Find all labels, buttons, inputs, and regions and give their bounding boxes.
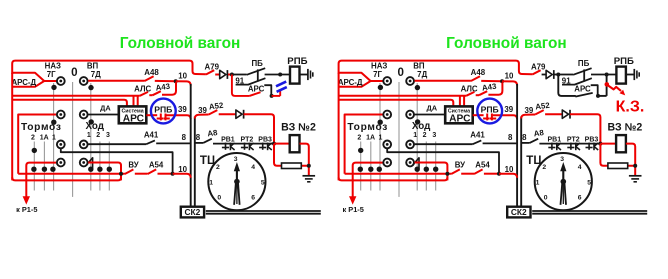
wire row4 red left right <box>353 163 383 197</box>
svg-text:ВЗ №2: ВЗ №2 <box>281 122 316 134</box>
wire ВУ А54 red right <box>345 173 452 175</box>
label РТ2 right <box>567 137 580 144</box>
svg-text:А48: А48 <box>144 68 159 77</box>
wire bottom red <box>12 177 121 180</box>
gauge number 4 <box>251 164 255 171</box>
svg-text:2: 2 <box>216 164 220 171</box>
label Ход right <box>412 121 431 132</box>
node junction ВЗ№2 left right <box>598 142 602 146</box>
contact КВ Ход-ав right <box>406 111 414 119</box>
node АРС-Д fork right <box>339 73 383 87</box>
svg-text:2: 2 <box>423 132 427 139</box>
diode РВ1 right <box>548 143 561 151</box>
gauge number 1 right <box>536 180 540 187</box>
wire 10 to bus L1 right <box>499 174 517 178</box>
wire node10 to bus L1 right <box>502 81 517 85</box>
svg-text:1: 1 <box>52 134 56 141</box>
cam dot row4 х3 right <box>433 167 438 172</box>
label 91 right <box>562 76 571 85</box>
cam dot row4 т1А <box>42 167 47 172</box>
highlight circle РПБ right <box>477 99 502 124</box>
diode РВ3 <box>259 143 272 151</box>
node К.З. fault dot right <box>605 82 610 87</box>
label к Р1-5 right <box>343 205 364 214</box>
svg-text:АРС: АРС <box>248 85 265 94</box>
label 7Д right <box>417 70 427 79</box>
wire row4 red right right <box>415 163 448 181</box>
breaker А48 blade right <box>471 76 480 81</box>
label 2 Ход right <box>423 132 427 139</box>
gauge needle right <box>560 162 566 205</box>
svg-text:8: 8 <box>196 133 201 142</box>
cam shaft line Ход-1 right <box>416 83 418 191</box>
contact КВ Ход row4 <box>80 159 88 167</box>
wire ВУ-А54 <box>135 173 148 175</box>
title Головной вагон <box>120 35 241 52</box>
relay contact РПБ <box>157 114 170 121</box>
wire ПБ to РПБ coil <box>265 74 290 76</box>
switch АРС fixed hook <box>264 85 271 96</box>
wire А54 to junction <box>158 173 173 175</box>
gauge needle <box>234 162 240 205</box>
svg-text:А43: А43 <box>155 82 171 93</box>
contact КВ Тормоз row3 <box>57 141 65 149</box>
svg-text:5: 5 <box>587 180 591 187</box>
wire node10 to bus L1 <box>176 81 191 85</box>
wire А79 to diode <box>215 74 220 76</box>
wire АРС junction right right <box>598 95 607 97</box>
cam dot row4 т1 right <box>377 167 382 172</box>
label АРС box right <box>449 113 471 124</box>
svg-text:РВ3: РВ3 <box>258 137 272 144</box>
label А52 right <box>535 101 551 112</box>
label 10 node <box>178 72 187 81</box>
label 91 <box>235 76 244 85</box>
switch ПБ bar <box>257 69 259 81</box>
svg-text:5: 5 <box>261 180 265 187</box>
svg-text:Головной вагон: Головной вагон <box>446 35 567 52</box>
svg-text:0: 0 <box>544 195 548 202</box>
label ТЦ right <box>526 154 542 167</box>
diode on wire 39 <box>236 110 244 119</box>
wire bus2 red right <box>339 100 454 107</box>
relay coil ВЗ№2 <box>290 135 300 152</box>
svg-text:РТ2: РТ2 <box>567 137 580 144</box>
svg-text:4: 4 <box>578 164 582 171</box>
label СК2 <box>184 207 200 217</box>
highlight circle РПБ <box>151 99 176 124</box>
wire bus1 red right <box>339 95 467 97</box>
breaker А54 blade right <box>474 169 483 174</box>
wire ВП to А48 red <box>88 80 144 82</box>
label 2 Ход <box>96 132 100 139</box>
cam dot НАЗ closed right <box>378 85 383 90</box>
wire bus L1 right <box>516 84 518 207</box>
label Система right <box>448 109 470 115</box>
wire Тормоз row3 hook right <box>387 148 499 173</box>
contact КВ Тормоз-ав <box>57 111 65 119</box>
contact КВ ВП right <box>406 77 414 85</box>
svg-text:10: 10 <box>178 72 187 81</box>
wire top red bus <box>12 61 206 75</box>
label АЛС right <box>461 85 478 94</box>
ground РПБ <box>308 69 313 80</box>
svg-text:к Р1-5: к Р1-5 <box>343 205 364 214</box>
svg-text:1: 1 <box>413 132 417 139</box>
wire А52 to diode <box>219 113 236 115</box>
label Тормоз <box>21 122 62 133</box>
label 8 left <box>182 133 187 142</box>
cam dot row4 х2 right <box>424 167 429 172</box>
node box-right junction right <box>445 172 449 176</box>
label ДА right <box>426 103 437 112</box>
cam dot ВП closed <box>88 85 93 90</box>
gauge number 1 <box>209 180 213 187</box>
svg-text:3: 3 <box>234 156 238 163</box>
contact КВ ВП <box>80 77 88 85</box>
svg-text:К.З.: К.З. <box>616 99 645 116</box>
svg-text:ДА: ДА <box>426 103 437 112</box>
svg-text:39: 39 <box>504 105 513 114</box>
wire row4 red right <box>88 163 121 181</box>
label 39 left <box>178 105 187 114</box>
breaker А79 blade <box>206 70 214 74</box>
wire Тормоз row3 hook <box>61 148 173 173</box>
node junction ВЗ№2 left <box>272 142 276 146</box>
wire diode to node ПБ right <box>554 74 558 76</box>
label 1А right <box>366 134 375 141</box>
wire bus1 red <box>12 95 140 97</box>
label РТ2 <box>241 137 254 144</box>
cam shaft line Тормоз-1А <box>43 142 45 191</box>
svg-text:10: 10 <box>505 165 514 174</box>
wire АРС box to РПБ contact right <box>473 114 484 116</box>
label 10 node right <box>505 72 514 81</box>
label А54 <box>149 161 164 170</box>
label 39 left right <box>504 105 513 114</box>
cam shaft line Тормоз-2 right <box>360 142 362 191</box>
gauge number 3 right <box>560 156 564 163</box>
contact КВ Тормоз row4 <box>57 159 65 167</box>
svg-text:А54: А54 <box>475 161 490 170</box>
contact КВ НАЗ <box>57 77 65 85</box>
relay coil ВЗ№2 right <box>616 135 626 152</box>
svg-text:СК2: СК2 <box>511 207 527 217</box>
wire drop to АРС box a <box>133 96 135 107</box>
label Ход <box>85 121 104 132</box>
label РВ1 <box>221 137 235 144</box>
diode on wire 39 right <box>562 110 570 119</box>
node АРС junction right <box>596 94 600 98</box>
wire L2 to А8 <box>195 142 203 144</box>
gauge number 2 right <box>542 164 546 171</box>
label ТЦ <box>200 154 216 167</box>
svg-text:ДА: ДА <box>100 103 111 112</box>
label 39 right <box>198 106 207 115</box>
label НАЗ <box>45 62 61 71</box>
cam shaft line Ход-1 <box>90 83 92 191</box>
wire РПБ coil to ground <box>300 74 308 76</box>
svg-text:АРС: АРС <box>574 85 591 94</box>
svg-text:Ход: Ход <box>412 121 431 132</box>
diode РВ1 <box>222 143 235 151</box>
label РПБ contact <box>154 105 172 115</box>
svg-text:3: 3 <box>432 132 436 139</box>
wire АРС box to РПБ contact <box>146 114 157 116</box>
diode РТ2 right <box>567 143 580 151</box>
breaker А41 blade right <box>473 140 482 144</box>
svg-text:10: 10 <box>178 165 187 174</box>
switch ПБ upper blade <box>247 68 266 75</box>
gauge number 0 right <box>544 195 548 202</box>
svg-text:0: 0 <box>71 66 77 79</box>
breaker А79 blade right <box>532 70 540 74</box>
switch АРС fixed hook right <box>591 85 598 96</box>
wire V2 to Тормоз row2 <box>18 114 56 116</box>
label АРС contact right <box>574 85 591 94</box>
contact КВ Ход row4 right <box>406 159 414 167</box>
label РВ1 right <box>547 137 561 144</box>
wire ВЗ№2 coil to ground leg right <box>626 144 635 176</box>
gauge ТЦ dial <box>208 153 265 210</box>
label РПБ contact right <box>481 105 499 115</box>
gauge number 5 <box>261 180 265 187</box>
wire А79 to diode right <box>542 74 547 76</box>
breaker А8 blade right <box>530 139 539 143</box>
contact КВ Тормоз row4 right <box>383 159 391 167</box>
wire left rail V1 <box>11 73 13 181</box>
node diode-А79 junction right <box>556 73 560 77</box>
svg-text:1: 1 <box>378 134 382 141</box>
cam dot row4 т2 <box>31 167 36 172</box>
wire V2 left rail right <box>345 115 348 174</box>
svg-text:АРС: АРС <box>123 113 145 124</box>
switch АРС blade open <box>249 92 260 96</box>
wire ВП to А48 red right <box>415 80 471 82</box>
node А41-branch junction right <box>497 172 501 176</box>
wire diode to ВЗ№2 <box>244 114 274 143</box>
svg-text:6: 6 <box>578 195 582 202</box>
contact КВ Ход-ав <box>80 111 88 119</box>
label АЛС <box>134 85 151 94</box>
wire bus L1 <box>190 84 192 207</box>
label А41 <box>144 131 159 140</box>
gauge number 5 right <box>587 180 591 187</box>
svg-text:7Д: 7Д <box>91 70 101 79</box>
node junction resistor-ground <box>307 164 311 168</box>
svg-text:0: 0 <box>217 195 221 202</box>
wire L2 to А52 <box>195 115 209 119</box>
wire РПБ contact to bus L1 <box>166 115 190 119</box>
gauge ТЦ dial right <box>535 153 592 210</box>
break marks blue <box>276 82 287 92</box>
cam dot row2 left right <box>378 120 383 125</box>
wire А43 to node10 right <box>488 82 502 95</box>
box Система АРС <box>119 106 147 123</box>
label АРС box <box>123 113 145 124</box>
cam dot НАЗ closed <box>51 85 56 90</box>
wire РПБ contact to bus L1 right <box>493 115 517 119</box>
svg-text:1: 1 <box>209 180 213 187</box>
svg-text:10: 10 <box>505 72 514 81</box>
wire А52 to diode right <box>545 113 562 115</box>
contact КВ Ход row3 right <box>406 141 414 149</box>
arrow к Р1-5 right <box>349 196 356 204</box>
svg-text:8: 8 <box>508 133 513 142</box>
cam dot row4 х2 <box>97 167 102 172</box>
label 1 Ход <box>87 132 91 139</box>
box СК2 <box>181 207 204 218</box>
switch АРС blade closed right <box>575 93 592 97</box>
wire АРС junction right <box>272 95 281 97</box>
wire ВУ-А54 right <box>461 173 474 175</box>
wire drop to АРС box b <box>137 96 139 107</box>
label СК2 right <box>511 207 527 217</box>
cam shaft line Ход-3 <box>108 142 110 191</box>
svg-text:СК2: СК2 <box>184 207 200 217</box>
switch ПБ bar right <box>583 69 585 81</box>
breaker АЛС blade right <box>466 92 474 96</box>
cam dot row4 х1 <box>88 167 93 172</box>
label 8 left right <box>508 133 513 142</box>
label 7Г right <box>373 70 382 79</box>
wire Ход row3 to А41 <box>88 143 146 145</box>
wire ВУ А54 red <box>18 173 125 175</box>
label А79 right <box>531 63 546 72</box>
gauge number 6 right <box>578 195 582 202</box>
wire А54 to junction right <box>484 173 499 175</box>
label ПБ <box>252 59 264 68</box>
label ПБ right <box>578 59 590 68</box>
label 10 lower <box>178 165 187 174</box>
gauge number 3 <box>234 156 238 163</box>
wire А43 to node10 <box>162 82 176 95</box>
label А8 <box>207 128 219 138</box>
label ВП right <box>413 61 425 70</box>
wire V2 left rail <box>18 115 21 174</box>
label ВЗ №2 right <box>608 122 643 134</box>
node РПБ coil junction right <box>605 73 609 77</box>
diode РВ3 right <box>586 143 599 151</box>
wire ПБ to РПБ coil right <box>591 74 616 76</box>
cam shaft line Ход-2 <box>99 142 101 191</box>
contact КВ Тормоз-ав right <box>383 111 391 119</box>
label АРС-Д right <box>338 78 363 87</box>
cam dot row2 right right <box>415 119 420 124</box>
label 10 lower right <box>505 165 514 174</box>
wire А48 to node 10 <box>155 80 176 82</box>
node РПБ coil junction <box>278 73 282 77</box>
cam lever Ход row4 <box>86 157 93 168</box>
wire РПБ coil to ground right <box>626 74 634 76</box>
cam dot row2 right <box>89 119 94 124</box>
svg-text:2: 2 <box>542 164 546 171</box>
svg-text:7Д: 7Д <box>417 70 427 79</box>
breaker А48 blade <box>145 76 154 81</box>
wire 10 to bus L1 <box>173 174 191 178</box>
ground РПБ right <box>634 69 639 80</box>
label РВ3 <box>258 137 272 144</box>
cam dot row4 х3 <box>107 167 112 172</box>
cam dot row4 т2 right <box>358 167 363 172</box>
wire А41 to bus L1 right <box>483 142 518 144</box>
wire bus L2 <box>194 117 196 207</box>
ground ВЗ№2 <box>303 176 316 182</box>
diode А79 right <box>546 70 554 79</box>
wire А8 to РВ diodes right <box>539 143 600 145</box>
svg-text:РВ1: РВ1 <box>221 137 235 144</box>
label А48 right <box>471 68 486 77</box>
cam shaft line Тормоз-1А right <box>370 142 372 191</box>
wire АРС loop down <box>232 75 250 96</box>
gauge number 0 <box>217 195 221 202</box>
label ВП <box>87 61 99 70</box>
switch ПБ lower blade <box>236 78 266 84</box>
node АРС-Д fork <box>12 73 56 87</box>
svg-text:к Р1-5: к Р1-5 <box>16 205 37 214</box>
svg-text:3: 3 <box>106 132 110 139</box>
box Система АРС right <box>445 106 473 123</box>
wire V2 to Тормоз row2 right <box>345 114 383 116</box>
label ВУ <box>128 161 138 170</box>
svg-text:8: 8 <box>522 133 527 142</box>
label НАЗ right <box>371 62 387 71</box>
svg-text:АЛС: АЛС <box>461 85 478 94</box>
wire L2 to А8 right <box>521 142 529 144</box>
cam lever Ход row4 right <box>412 157 419 168</box>
relay coil РПБ <box>290 67 300 84</box>
wire left rail V1 right <box>338 73 340 181</box>
label 1 Тормоз <box>52 134 56 141</box>
wire АРС loop up right <box>606 76 608 96</box>
wire ВЗ№2 coil to ground leg <box>300 144 309 176</box>
diode А79 <box>220 70 228 79</box>
breaker А41 blade <box>146 140 155 144</box>
label 2 <box>31 134 35 141</box>
wire ДА right <box>415 114 446 116</box>
wire АРС loop up <box>279 91 281 96</box>
gauge number 2 <box>216 164 220 171</box>
wire twin feeder <box>206 211 321 214</box>
diode РТ2 <box>241 143 254 151</box>
svg-text:2: 2 <box>31 134 35 141</box>
svg-text:Ход: Ход <box>85 121 104 132</box>
label А8 right <box>533 128 545 138</box>
svg-text:2: 2 <box>357 134 361 141</box>
svg-text:РВ1: РВ1 <box>547 137 561 144</box>
wire drop to АРС box a right <box>459 96 461 107</box>
cam dot row2 left <box>51 120 56 125</box>
arrow К.З. zigzag right <box>607 85 625 96</box>
wire node to ПБ <box>232 74 247 76</box>
label А43 right <box>481 82 497 93</box>
svg-text:А8: А8 <box>207 128 219 138</box>
label 8 right right <box>522 133 527 142</box>
svg-text:А54: А54 <box>149 161 164 170</box>
cam dot row4 х1 right <box>415 167 420 172</box>
svg-text:А43: А43 <box>481 82 497 93</box>
breaker А43 blade <box>153 91 161 95</box>
label 1 Тормоз right <box>378 134 382 141</box>
svg-text:4: 4 <box>251 164 255 171</box>
wire АЛС-А43 <box>149 94 152 96</box>
node 10 junction <box>174 79 178 83</box>
cam shaft line 0 right <box>398 82 400 197</box>
wire А8 to РВ diodes <box>213 143 274 145</box>
contact КВ Тормоз row3 right <box>383 141 391 149</box>
cam shaft line Ход-3 right <box>435 142 437 191</box>
label ДА <box>100 103 111 112</box>
